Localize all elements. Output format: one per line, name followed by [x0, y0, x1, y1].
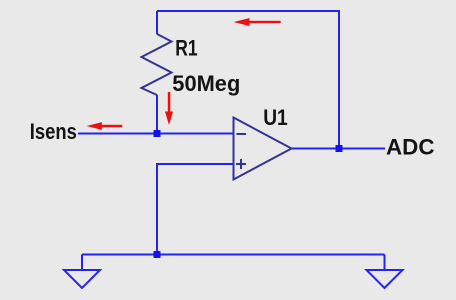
ground (left)	[64, 270, 100, 288]
current arrow (through R1, pointing down)	[165, 92, 173, 125]
svg-text:Isens: Isens	[30, 119, 77, 144]
node junction at op-amp output / feedback	[336, 145, 343, 152]
wire: Isens input to op-amp inverting input	[78, 133, 234, 135]
node junction at ground rail	[154, 251, 161, 258]
svg-text:ADC: ADC	[386, 134, 435, 159]
current arrow (top, pointing left)	[234, 18, 281, 26]
svg-text:50Meg: 50Meg	[172, 71, 240, 96]
ground (right)	[367, 270, 403, 288]
svg-text:U1: U1	[263, 105, 288, 130]
wire: op-amp output to ADC	[292, 148, 386, 150]
current arrow (Isens, pointing left)	[87, 122, 123, 130]
node junction at R1 bottom / Isens wire	[154, 130, 161, 137]
wire: non-inverting input down to ground rail	[157, 164, 234, 255]
wire: feedback top horizontal + right vertical	[157, 11, 339, 149]
wire: resistor top lead	[156, 11, 158, 34]
wire: left ground lead	[81, 255, 83, 271]
wire: bottom ground rail	[82, 254, 385, 256]
op-amp U1	[234, 118, 292, 180]
svg-text:R1: R1	[175, 36, 197, 61]
wire: resistor bottom lead	[156, 95, 158, 134]
wire: right ground lead	[384, 255, 386, 271]
resistor R1	[142, 34, 172, 95]
